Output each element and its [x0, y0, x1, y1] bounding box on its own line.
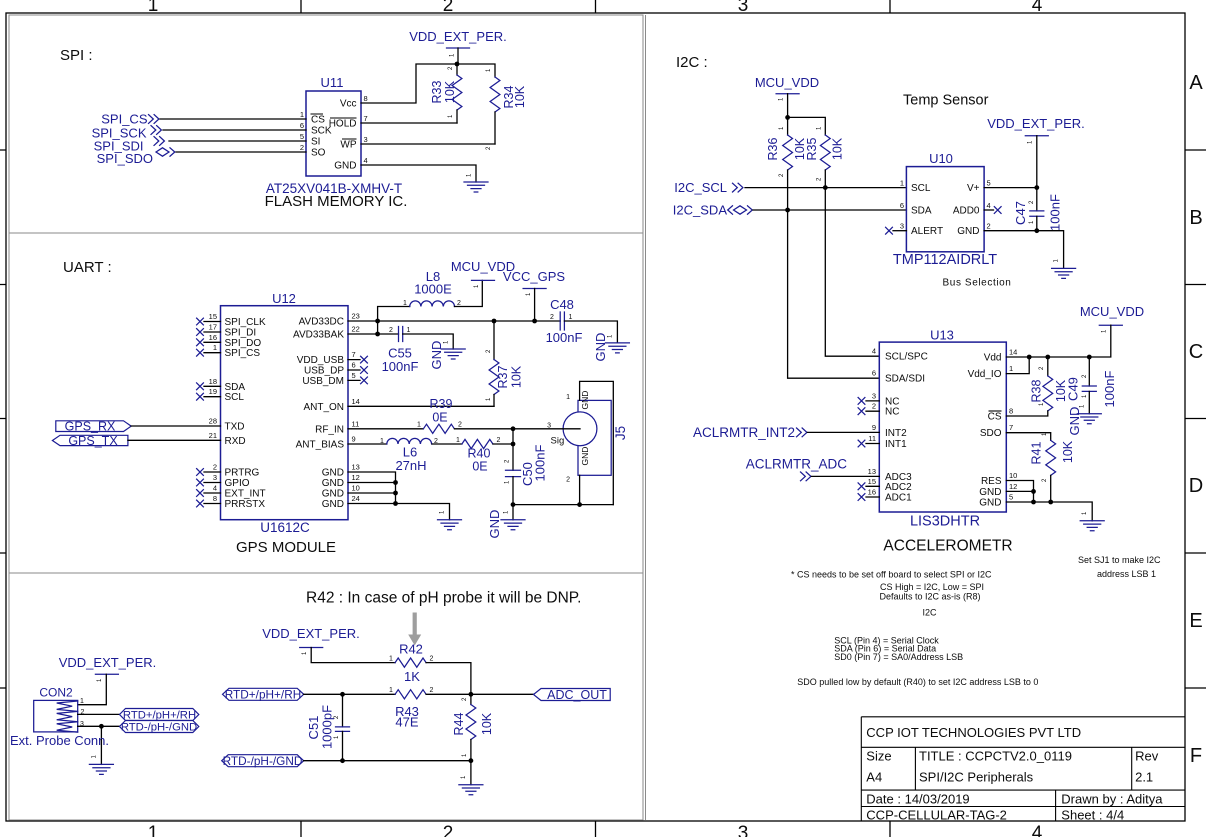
junction C51 bottom [340, 758, 345, 763]
svg-text:11: 11 [868, 434, 876, 443]
wire SPI_SCK [163, 129, 306, 131]
svg-text:1: 1 [403, 300, 407, 307]
port RTD+/pH+/RH (CON2) [120, 709, 199, 722]
wire Vdd_IO [1006, 357, 1029, 374]
svg-text:RTD-/pH-/GND: RTD-/pH-/GND [223, 754, 303, 768]
svg-text:GND: GND [1067, 407, 1082, 436]
svg-text:R33: R33 [430, 80, 444, 103]
note CS select [791, 570, 992, 618]
svg-text:J5: J5 [613, 426, 628, 440]
svg-text:Ext. Probe Conn.: Ext. Probe Conn. [10, 733, 109, 748]
svg-text:GND: GND [322, 499, 344, 510]
svg-text:1: 1 [566, 394, 570, 401]
svg-text:19: 19 [209, 387, 217, 396]
junction C50 gnd [511, 502, 516, 507]
svg-text:21: 21 [209, 431, 217, 440]
L8 pin digits [403, 300, 461, 307]
svg-text:V+: V+ [967, 183, 980, 194]
svg-text:11: 11 [352, 419, 360, 428]
U12 right pin numbers [352, 312, 360, 504]
svg-text:R44: R44 [452, 712, 466, 735]
wire to R35 [788, 117, 826, 135]
svg-text:NC: NC [885, 407, 899, 418]
wire Vcc net [361, 64, 495, 103]
svg-text:MCU_VDD: MCU_VDD [1080, 304, 1144, 319]
resistor R44 [466, 694, 476, 760]
wire R40 to C50 [493, 443, 513, 445]
svg-text:6: 6 [352, 361, 356, 370]
svg-text:3: 3 [547, 423, 551, 430]
svg-text:R36: R36 [766, 137, 780, 160]
svg-text:VDD_EXT_PER.: VDD_EXT_PER. [262, 626, 360, 641]
power flag MCU_VDD (U13) [1006, 304, 1144, 357]
svg-text:VDD_EXT_PER.: VDD_EXT_PER. [987, 116, 1085, 131]
svg-text:R37: R37 [496, 365, 510, 388]
svg-text:1: 1 [380, 438, 384, 445]
svg-text:ANT_BIAS: ANT_BIAS [296, 440, 345, 451]
C47 pin digits [1029, 200, 1035, 224]
wire SPI_CS [160, 118, 306, 120]
svg-text:C47: C47 [1013, 201, 1028, 225]
port chevron SPI_SDI [154, 137, 164, 146]
power flag VDD_EXT_PER. (R42) [262, 626, 395, 663]
svg-text:I2C :: I2C : [676, 54, 708, 71]
svg-text:E: E [1189, 610, 1202, 632]
svg-text:5: 5 [352, 371, 356, 380]
svg-text:6: 6 [900, 201, 904, 210]
svg-text:R40: R40 [468, 447, 491, 461]
inductor L8 [410, 280, 483, 306]
svg-text:Drawn by : Aditya: Drawn by : Aditya [1061, 792, 1163, 807]
svg-text:8: 8 [213, 494, 217, 503]
svg-text:6: 6 [872, 369, 876, 378]
svg-text:I2C_SCL: I2C_SCL [674, 180, 727, 195]
svg-text:PRRSTX: PRRSTX [225, 499, 266, 510]
svg-text:address LSB 1: address LSB 1 [1097, 569, 1156, 579]
R39 pin digits [417, 422, 462, 429]
port chevron I2C_SCL [733, 183, 743, 192]
svg-text:1: 1 [569, 314, 573, 321]
svg-text:1: 1 [389, 687, 393, 694]
svg-text:GND: GND [322, 489, 344, 500]
svg-text:ACLRMTR_INT2: ACLRMTR_INT2 [693, 425, 795, 440]
svg-text:B: B [1189, 207, 1202, 229]
svg-text:SDA: SDA [225, 382, 246, 393]
svg-text:1: 1 [300, 110, 304, 119]
wire CON2 pin3 [78, 725, 120, 727]
svg-text:4: 4 [1032, 0, 1043, 16]
svg-text:USB_DP: USB_DP [304, 366, 344, 377]
wire U11 GND [361, 165, 476, 182]
resistor R38 [1006, 357, 1052, 416]
svg-text:GND: GND [957, 226, 979, 237]
wire RTD+ row [304, 693, 395, 695]
svg-text:VDD_EXT_PER.: VDD_EXT_PER. [59, 655, 157, 670]
svg-text:CS High = I2C, Low = SPI: CS High = I2C, Low = SPI [880, 582, 984, 592]
svg-text:SPI :: SPI : [60, 47, 93, 64]
wire RF_IN [348, 428, 423, 430]
svg-text:U11: U11 [321, 75, 344, 90]
resistor R43 [395, 690, 426, 699]
svg-text:GND: GND [979, 487, 1001, 498]
U13 right pin numbers [1009, 348, 1017, 502]
C51 pin digits [334, 715, 340, 739]
svg-text:C48: C48 [550, 297, 574, 312]
U12 left no-connect pins [197, 318, 221, 507]
svg-text:CCP IOT TECHNOLOGIES PVT LTD: CCP IOT TECHNOLOGIES PVT LTD [866, 725, 1081, 740]
svg-text:HOLD: HOLD [329, 119, 357, 130]
wire RES [1006, 481, 1033, 503]
connector J5 body [563, 400, 611, 475]
svg-text:3: 3 [738, 823, 749, 837]
svg-text:Size: Size [866, 749, 891, 764]
svg-text:GND: GND [322, 478, 344, 489]
U12 right pin names [293, 317, 344, 511]
svg-text:16: 16 [209, 333, 217, 342]
svg-text:4: 4 [987, 201, 991, 210]
svg-text:7: 7 [364, 114, 368, 123]
resistor R35 [820, 135, 879, 356]
svg-text:Sig: Sig [551, 436, 565, 447]
svg-text:13: 13 [868, 467, 876, 476]
U12 GND pins bus [348, 472, 450, 520]
junctions Vdd rail [1027, 355, 1032, 360]
C48 pin digits [550, 314, 573, 321]
row labels left (cut off at sheet edge) [0, 72, 1, 767]
U12 left pin names [225, 317, 266, 510]
svg-text:5: 5 [300, 132, 304, 141]
svg-text:7: 7 [352, 350, 356, 359]
svg-text:RXD: RXD [225, 436, 246, 447]
power flag MCU_VDD (I2C) [755, 75, 819, 117]
svg-text:ANT_ON: ANT_ON [303, 402, 344, 413]
junction CON2 gnd [99, 724, 104, 729]
R41 pin digits [1042, 432, 1048, 482]
wire I2C_SDA [753, 209, 906, 211]
vertical divider line [645, 15, 647, 820]
column labels bottom [148, 823, 1043, 837]
svg-text:VDD_USB: VDD_USB [297, 355, 345, 366]
J5 GND pin labels [580, 391, 590, 466]
svg-text:2: 2 [389, 327, 393, 334]
svg-text:SPI_CS: SPI_CS [225, 348, 261, 359]
wire R43 to ADC_OUT [426, 693, 533, 695]
svg-text:10K: 10K [1061, 440, 1075, 463]
wire SPI_SDO [176, 151, 306, 153]
port chevron SPI_SCK [151, 126, 161, 135]
svg-text:LIS3DHTR: LIS3DHTR [910, 514, 980, 530]
C50 pin digits [505, 459, 511, 484]
U13 right pin names [968, 353, 1002, 509]
svg-text:TXD: TXD [225, 422, 245, 433]
svg-text:GND: GND [580, 447, 590, 466]
svg-text:SPI_CLK: SPI_CLK [225, 317, 266, 328]
title block texts [866, 725, 1163, 823]
svg-text:GND: GND [487, 510, 502, 539]
svg-text:1: 1 [213, 343, 217, 352]
R35 pin digits [817, 126, 823, 181]
U10 pin names [911, 183, 980, 237]
IC U13 body [879, 342, 1006, 512]
svg-text:UART :: UART : [63, 259, 112, 276]
svg-text:Sheet : 4/4: Sheet : 4/4 [1061, 808, 1124, 823]
svg-text:U12: U12 [272, 291, 296, 306]
C55 pin digits [389, 327, 411, 334]
ground R44 [459, 761, 483, 795]
junctions U12 gnd bus [393, 480, 398, 485]
ground C49 [1077, 404, 1101, 424]
wire WP [361, 143, 495, 145]
junction SDA/R36 [785, 208, 790, 213]
svg-text:3: 3 [738, 0, 749, 16]
svg-text:RF_IN: RF_IN [315, 424, 344, 435]
svg-text:ADD0: ADD0 [953, 206, 980, 217]
junction ADC node [469, 692, 474, 697]
IC U12 body [221, 306, 349, 520]
svg-text:7: 7 [1009, 423, 1013, 432]
svg-text:SDA/SDI: SDA/SDI [885, 374, 925, 385]
svg-text:CCP-CELLULAR-TAG-2: CCP-CELLULAR-TAG-2 [866, 808, 1007, 823]
wire SDO [1006, 433, 1050, 441]
svg-text:5: 5 [1009, 493, 1013, 502]
R40 pin digits [456, 437, 501, 444]
ground U11 [464, 173, 488, 192]
junction Vcc/VDD node [455, 62, 460, 67]
svg-text:GND: GND [979, 498, 1001, 509]
svg-text:U13: U13 [930, 328, 954, 343]
ground C48 [605, 334, 629, 353]
svg-text:SI: SI [311, 137, 320, 148]
capacitor C47 [1030, 188, 1044, 231]
svg-text:R41: R41 [1030, 441, 1044, 464]
svg-text:12: 12 [1009, 482, 1017, 491]
svg-text:27nH: 27nH [395, 458, 426, 473]
R36 pin digits [779, 126, 785, 177]
wire RTD- row [304, 760, 471, 762]
U11 pin name overlines [311, 114, 357, 139]
resistor R34 [490, 77, 500, 144]
port RTD-/pH-/GND (CON2) [120, 721, 199, 734]
svg-text:SPI/I2C Peripherals: SPI/I2C Peripherals [919, 770, 1034, 785]
svg-text:USB_DM: USB_DM [302, 376, 344, 387]
svg-text:SPI_SDO: SPI_SDO [97, 151, 153, 166]
svg-text:ACLRMTR_ADC: ACLRMTR_ADC [746, 456, 848, 471]
svg-text:R35: R35 [805, 137, 819, 160]
svg-text:Rev: Rev [1135, 749, 1159, 764]
wire INT2 [808, 431, 880, 433]
svg-text:1: 1 [407, 327, 411, 334]
svg-text:* CS needs to be set off board: * CS needs to be set off board to select… [791, 570, 992, 580]
junctions U13 gnd [1031, 489, 1036, 494]
svg-text:2: 2 [443, 0, 454, 16]
resistor R36 [783, 117, 880, 378]
svg-text:4: 4 [213, 484, 217, 493]
resistor R41 [1046, 440, 1056, 502]
svg-text:PRTRG: PRTRG [225, 468, 260, 479]
junction RF/C50 [511, 426, 516, 431]
wire ADC3 [812, 475, 880, 477]
svg-text:1: 1 [417, 422, 421, 429]
row labels right [1189, 72, 1204, 767]
svg-text:16: 16 [868, 488, 876, 497]
svg-text:10K: 10K [443, 80, 457, 103]
ground U12 [438, 510, 462, 530]
wire U10 GND [984, 231, 1064, 269]
power flag VCC_GPS [503, 269, 565, 321]
U11 pin numbers [300, 94, 368, 165]
svg-text:SO: SO [311, 148, 326, 159]
IC U11 body [306, 91, 361, 176]
wire SPI_SDI [169, 140, 306, 142]
junction R37 top [492, 319, 497, 324]
svg-text:SCL/SPC: SCL/SPC [885, 352, 928, 363]
svg-text:3: 3 [213, 473, 217, 482]
svg-text:GPS_RX: GPS_RX [65, 420, 116, 434]
section box pH [9, 573, 643, 820]
capacitor C49 [1082, 357, 1096, 414]
inductor L6 [387, 438, 432, 444]
svg-text:GPIO: GPIO [225, 478, 250, 489]
svg-text:0E: 0E [472, 460, 487, 474]
svg-text:3: 3 [364, 135, 368, 144]
power flag VDD_EXT_PER. (SPI) [409, 29, 507, 64]
C49 pin digits [1082, 374, 1088, 398]
svg-text:14: 14 [1009, 348, 1017, 357]
wire L8 feed vertical [378, 307, 410, 335]
ground C50 [501, 505, 525, 530]
svg-text:ADC_OUT: ADC_OUT [547, 688, 607, 702]
wire GND12 [1006, 490, 1033, 492]
svg-text:A4: A4 [866, 770, 882, 785]
svg-text:U10: U10 [929, 151, 953, 166]
svg-text:1: 1 [389, 656, 393, 663]
U12 right no-connect pins [348, 356, 367, 384]
svg-text:CON2: CON2 [39, 686, 73, 700]
svg-text:8: 8 [364, 94, 368, 103]
svg-text:TITLE : CCPCTV2.0_0119: TITLE : CCPCTV2.0_0119 [919, 749, 1072, 764]
R42 pin digits [389, 656, 434, 663]
J5 pin labels [547, 394, 570, 484]
svg-text:RTD+/pH+/RH: RTD+/pH+/RH [123, 710, 196, 722]
svg-text:GND: GND [429, 341, 444, 370]
svg-text:RTD-/pH-/GND: RTD-/pH-/GND [121, 722, 197, 734]
svg-text:15: 15 [209, 312, 217, 321]
resistor R40 [462, 439, 493, 448]
U10 ALERT no-connect [886, 227, 907, 234]
svg-text:2.1: 2.1 [1135, 770, 1153, 785]
U10 ADD0 no-connect [984, 207, 1001, 214]
svg-text:SD0 (Pin 7) = SA0/Address LSB: SD0 (Pin 7) = SA0/Address LSB [834, 652, 963, 662]
svg-text:10: 10 [352, 484, 360, 493]
svg-text:WP: WP [340, 140, 356, 151]
wire I2C_SCL [745, 187, 906, 189]
svg-text:R42: R42 [399, 642, 423, 657]
port GPS_RX [56, 420, 131, 434]
R34 pin digits [486, 68, 492, 150]
svg-text:18: 18 [209, 377, 217, 386]
svg-text:23: 23 [352, 312, 360, 321]
svg-text:A: A [1189, 72, 1203, 94]
svg-text:47E: 47E [395, 715, 418, 730]
wire CON2 pin2 [78, 713, 120, 715]
svg-text:10K: 10K [510, 365, 524, 388]
svg-text:Vdd_IO: Vdd_IO [968, 369, 1002, 380]
svg-text:SPI_CS: SPI_CS [101, 112, 148, 127]
svg-text:R38: R38 [1030, 379, 1044, 402]
U13 no-connect pins [858, 398, 879, 501]
svg-text:0E: 0E [432, 411, 447, 425]
capacitor C55 [399, 327, 454, 350]
svg-text:SCL: SCL [225, 392, 245, 403]
junction C51 top [340, 692, 345, 697]
junction AVD33BAK/L8 [375, 332, 380, 337]
svg-text:4: 4 [364, 156, 368, 165]
wire RF_IN to J5 [455, 428, 581, 430]
svg-text:3: 3 [872, 391, 876, 400]
gray pointer arrow [408, 613, 421, 646]
wire TXD [131, 425, 220, 427]
svg-text:5: 5 [987, 179, 991, 188]
J5 pin1 gnd loop wire [580, 381, 614, 504]
power flag VDD_EXT_PER. (U10) [987, 116, 1085, 188]
port chevron ACLRMTR_INT2 [797, 428, 807, 437]
svg-text:4: 4 [1032, 823, 1043, 837]
CON2 pin numbers [80, 698, 85, 728]
svg-text:2: 2 [430, 656, 434, 663]
wire RXD [128, 439, 221, 441]
svg-text:10K: 10K [831, 137, 845, 160]
power flag MCU_VDD (UART) [451, 259, 515, 288]
ground U10 [1052, 259, 1076, 279]
svg-text:15: 15 [868, 477, 876, 486]
svg-text:R42 : In case of pH probe it w: R42 : In case of pH probe it will be DNP… [306, 590, 581, 607]
svg-text:100nF: 100nF [533, 445, 548, 482]
svg-text:10K: 10K [480, 712, 494, 735]
svg-text:MCU_VDD: MCU_VDD [755, 75, 819, 90]
svg-text:F: F [1190, 745, 1202, 767]
svg-text:1: 1 [148, 0, 159, 16]
junction VCC_GPS [532, 319, 537, 324]
U13 left pin names [885, 352, 928, 504]
svg-text:R39: R39 [430, 397, 453, 411]
svg-text:ADC1: ADC1 [885, 493, 912, 504]
svg-text:1000E: 1000E [414, 282, 452, 297]
U10 pin numbers [900, 179, 991, 231]
connector CON2 [34, 686, 78, 733]
svg-text:100nF: 100nF [382, 359, 419, 374]
svg-text:CS: CS [311, 115, 325, 126]
capacitor C51 [336, 694, 350, 760]
resistor R39 [423, 424, 454, 433]
svg-text:ACCELEROMETR: ACCELEROMETR [883, 538, 1012, 555]
svg-text:AVD33BAK: AVD33BAK [293, 330, 344, 341]
svg-text:13: 13 [352, 463, 360, 472]
svg-text:2: 2 [443, 823, 454, 837]
svg-text:I2C: I2C [923, 608, 938, 618]
svg-text:VDD_EXT_PER.: VDD_EXT_PER. [409, 29, 507, 44]
ground CON2 [89, 726, 113, 774]
svg-text:2: 2 [566, 477, 570, 484]
wire AVD33BAK to C55 [348, 333, 399, 335]
IC U10 body [906, 167, 984, 252]
svg-text:VCC_GPS: VCC_GPS [503, 269, 565, 284]
wire HOLD [361, 122, 457, 124]
R43 pin digits [389, 687, 434, 694]
svg-text:1: 1 [456, 437, 460, 444]
section box UART [9, 233, 643, 573]
power flag VDD_EXT_PER. (CON2) [59, 655, 157, 705]
U12 left pin numbers [209, 312, 217, 503]
